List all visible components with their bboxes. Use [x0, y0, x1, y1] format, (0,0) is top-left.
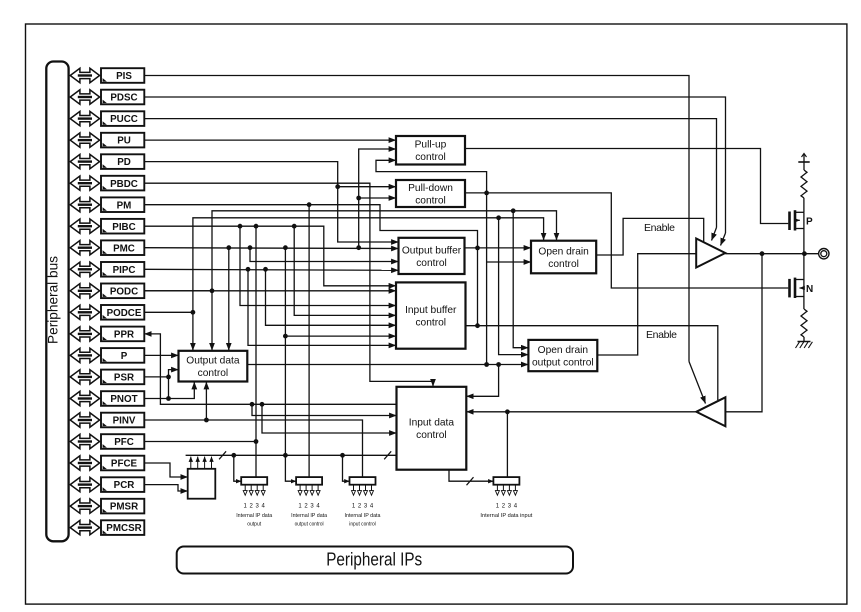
svg-text:P: P — [806, 216, 813, 227]
svg-text:Internal IP data input: Internal IP data input — [480, 513, 532, 519]
svg-text:PU: PU — [117, 136, 131, 147]
svg-text:Internal IP data: Internal IP data — [291, 513, 328, 519]
svg-text:PM: PM — [117, 200, 132, 211]
svg-text:PBDC: PBDC — [110, 179, 138, 190]
svg-text:PMC: PMC — [113, 243, 135, 254]
svg-text:PD: PD — [117, 157, 131, 168]
svg-text:PNOT: PNOT — [110, 394, 137, 405]
svg-text:Input data: Input data — [409, 418, 455, 429]
svg-text:Input buffer: Input buffer — [405, 305, 457, 316]
svg-text:Output buffer: Output buffer — [402, 245, 462, 256]
svg-text:Open drain: Open drain — [538, 345, 588, 356]
svg-text:output control: output control — [295, 522, 324, 528]
svg-text:control: control — [415, 152, 446, 163]
svg-text:PIS: PIS — [116, 71, 132, 82]
svg-text:Output data: Output data — [186, 356, 240, 367]
svg-text:Internal IP data: Internal IP data — [345, 513, 382, 519]
svg-text:PMCSR: PMCSR — [106, 523, 141, 534]
svg-text:PFC: PFC — [114, 437, 134, 448]
svg-text:control: control — [416, 430, 447, 441]
svg-text:output control: output control — [532, 358, 594, 369]
svg-text:Pull-down: Pull-down — [408, 183, 453, 194]
svg-text:input control: input control — [349, 522, 376, 528]
svg-text:PUCC: PUCC — [110, 114, 138, 125]
svg-text:Peripheral IPs: Peripheral IPs — [326, 548, 422, 569]
svg-text:output: output — [247, 522, 261, 528]
svg-text:control: control — [415, 318, 446, 329]
svg-text:PCR: PCR — [114, 480, 135, 491]
svg-text:PINV: PINV — [113, 416, 136, 427]
svg-text:control: control — [198, 368, 229, 379]
svg-text:Enable: Enable — [646, 329, 677, 341]
svg-text:control: control — [415, 195, 446, 206]
svg-text:Internal IP data: Internal IP data — [236, 513, 273, 519]
svg-text:PODCE: PODCE — [107, 308, 142, 319]
svg-text:control: control — [548, 259, 579, 270]
svg-text:PFCE: PFCE — [111, 459, 138, 470]
svg-text:PMSR: PMSR — [110, 502, 138, 513]
svg-text:N: N — [806, 284, 813, 295]
svg-text:PIBC: PIBC — [112, 222, 135, 233]
svg-text:PODC: PODC — [110, 286, 138, 297]
svg-text:PDSC: PDSC — [110, 93, 137, 104]
svg-text:PIPC: PIPC — [113, 265, 136, 276]
svg-text:PPR: PPR — [114, 330, 134, 341]
svg-text:Open drain: Open drain — [538, 246, 588, 257]
svg-text:Enable: Enable — [644, 222, 675, 234]
svg-text:control: control — [416, 258, 447, 269]
svg-text:Pull-up: Pull-up — [415, 140, 447, 151]
svg-text:P: P — [121, 351, 128, 362]
svg-text:Peripheral bus: Peripheral bus — [46, 256, 61, 344]
svg-text:PSR: PSR — [114, 373, 134, 384]
